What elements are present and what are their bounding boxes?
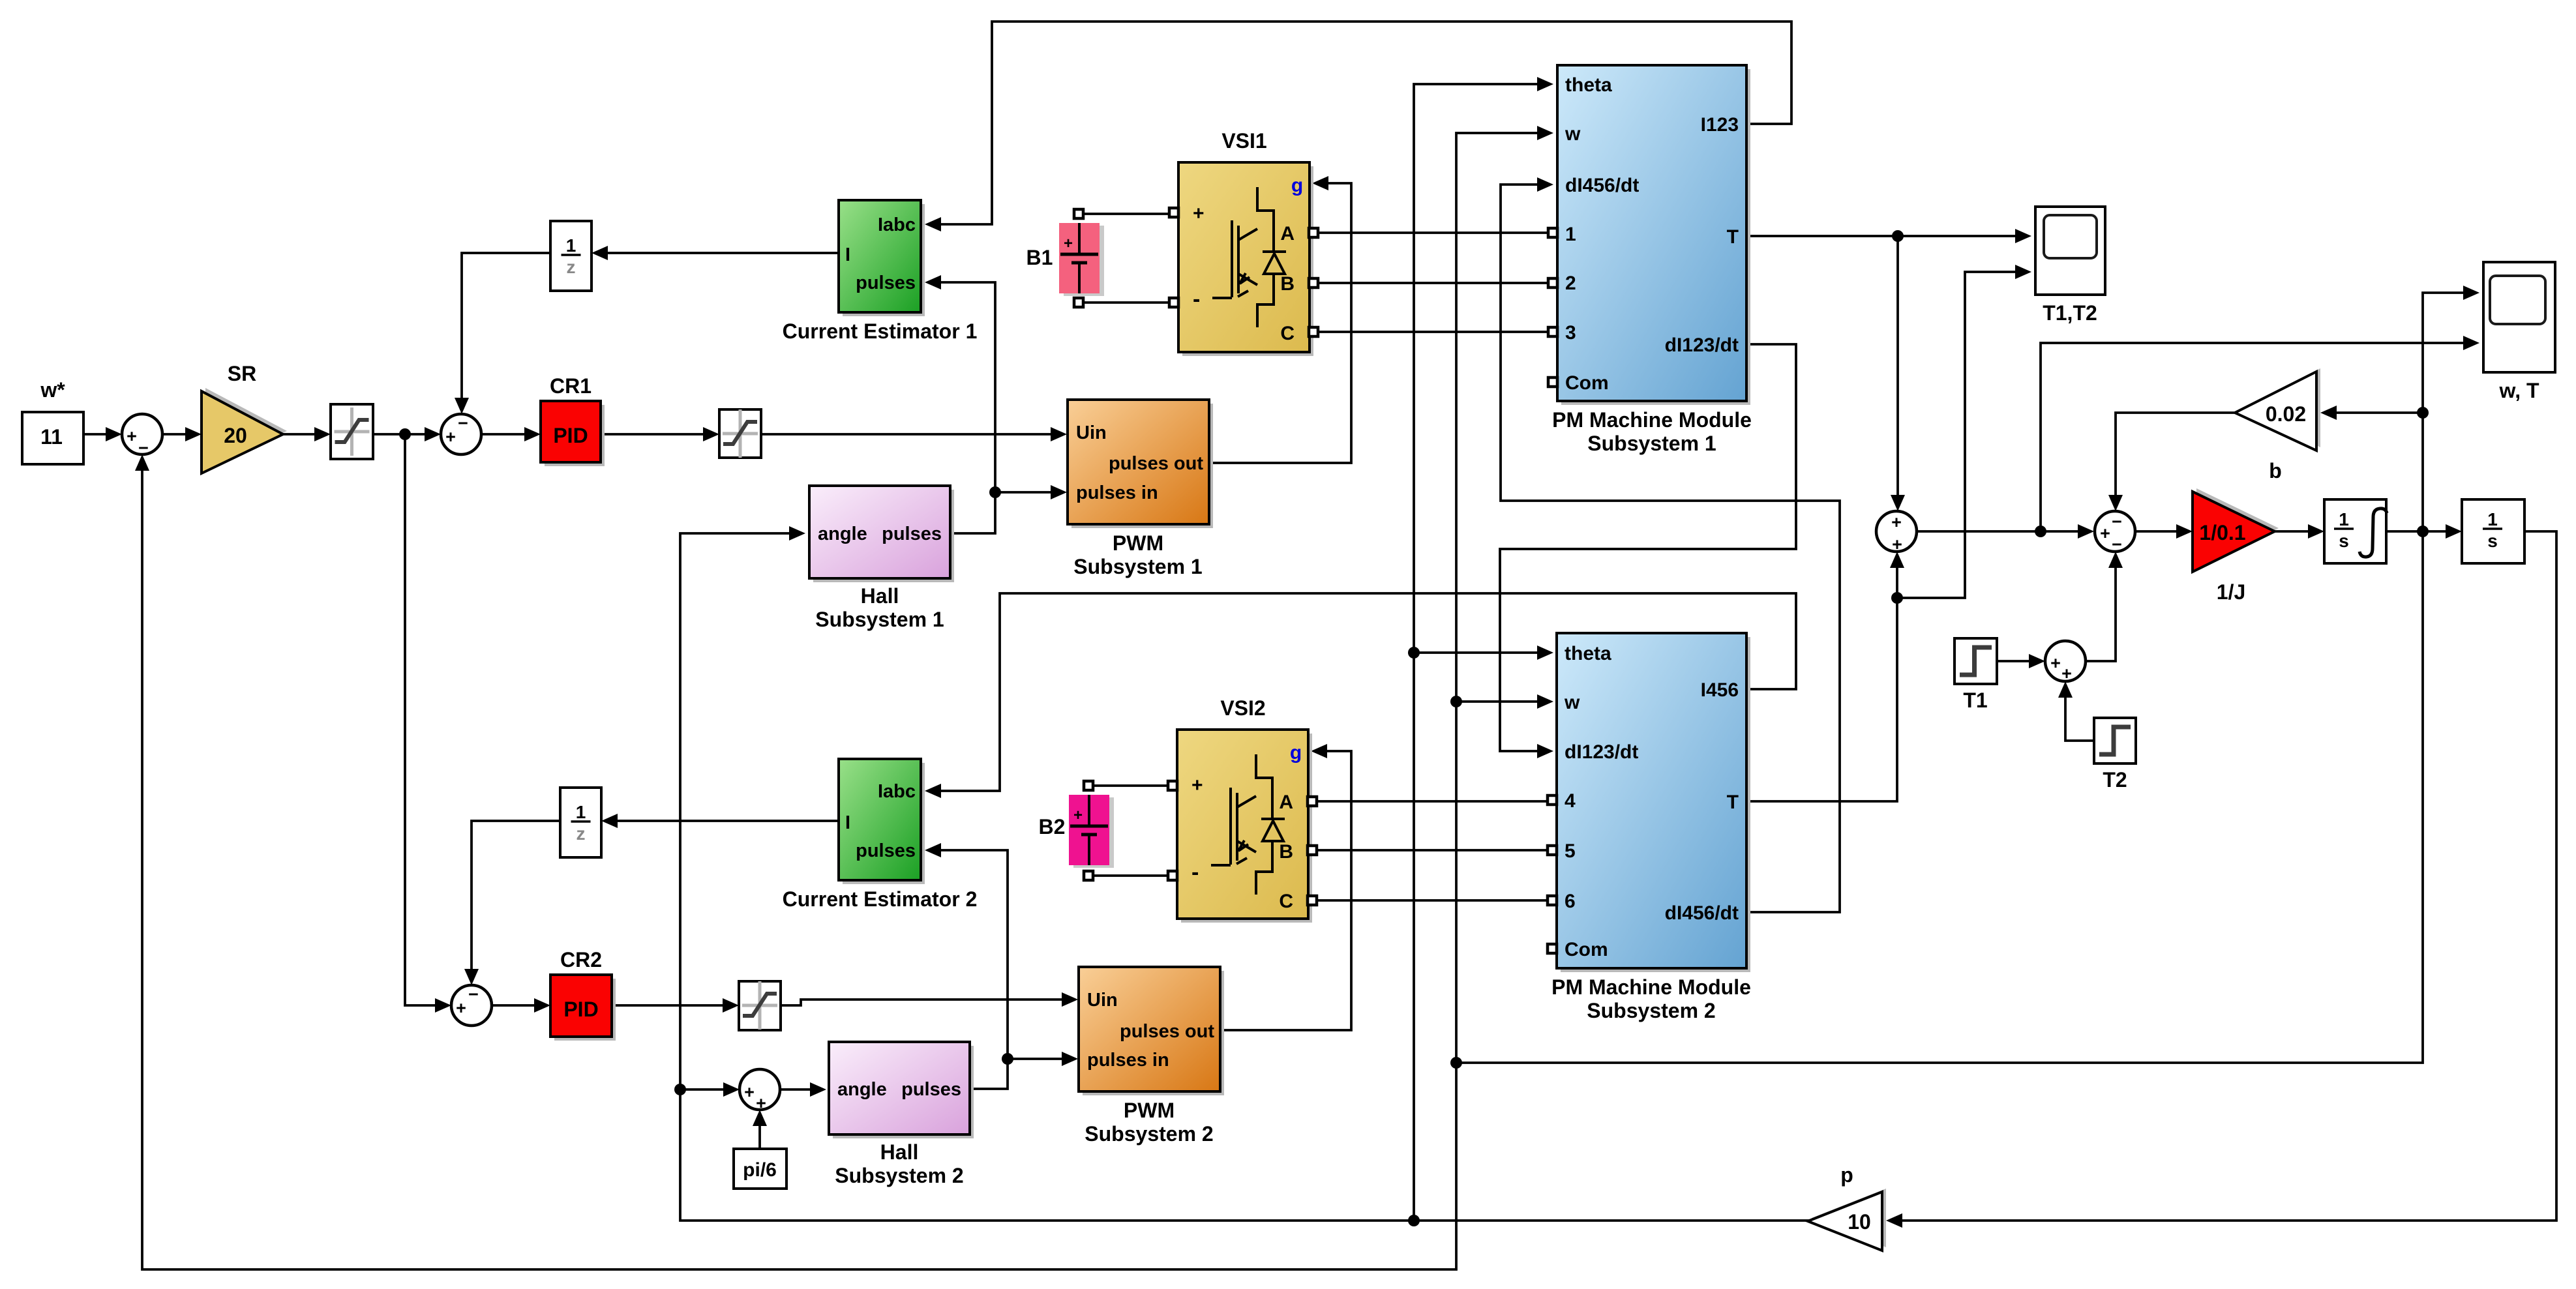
wire w branch to PM2 w input [1456, 700, 1538, 703]
svg-text:pulses in: pulses in [1087, 1050, 1169, 1071]
svg-text:+: + [744, 1082, 755, 1102]
svg-text:PWM: PWM [1113, 531, 1163, 555]
svg-text:theta: theta [1565, 643, 1611, 664]
wire saturation2 to PWM1 Uin [761, 433, 1052, 436]
Hall Subsystem 1 block [813, 490, 954, 582]
constant pi/6 [734, 1149, 786, 1189]
wire B1 plus terminal to VSI1 plus [1079, 213, 1171, 215]
scope T1,T2 [2035, 207, 2105, 295]
CR1 PID controller [545, 405, 605, 466]
svg-text:−: − [458, 413, 468, 433]
battery B1 [1064, 226, 1104, 296]
wire PWM2 pulses-out to VSI2 gate g [1220, 751, 1351, 1030]
svg-text:B: B [1280, 273, 1295, 295]
saturation3 block [739, 981, 781, 1030]
svg-text:Current Estimator 2: Current Estimator 2 [783, 887, 978, 911]
wire Hall1 pulses to PWM1 pulses-in and Current Estimator 1 pulses [950, 492, 1052, 533]
svg-text:w: w [1564, 692, 1580, 713]
svg-text:Hall: Hall [880, 1140, 919, 1164]
wire sum3 to gain 1/J [2135, 530, 2178, 533]
wire PWM1 pulses-out to VSI1 gate g [1209, 183, 1351, 463]
svg-text:dI456/dt: dI456/dt [1665, 902, 1739, 924]
junction dot w feedback at x2233 [1450, 1057, 1462, 1069]
junction dot on T1 torque line [1892, 230, 1904, 242]
wire theta to Hall2 angle sum [680, 1088, 725, 1091]
wire w feedback up to PM1 w input [1456, 133, 1538, 1063]
svg-text:dI123/dt: dI123/dt [1665, 334, 1739, 356]
unit delay 1/z block machine 2 [560, 788, 601, 857]
wire B2 plus terminal to VSI2 plus [1088, 784, 1169, 787]
svg-text:−: − [138, 438, 149, 458]
svg-text:T2: T2 [2103, 768, 2127, 792]
wire CR1 to saturation2 [601, 433, 704, 436]
svg-text:CR2: CR2 [560, 948, 602, 971]
svg-text:+: + [1193, 203, 1205, 224]
svg-text:A: A [1279, 792, 1293, 813]
saturation1 block [331, 404, 373, 459]
Current Estimator 1 subsystem block [843, 204, 925, 316]
sum3 acceleration summing junction [2095, 511, 2135, 552]
svg-text:1/0.1: 1/0.1 [2199, 521, 2245, 544]
svg-text:I: I [845, 812, 850, 833]
svg-text:0.02: 0.02 [2266, 402, 2306, 426]
battery B2 [1073, 797, 1114, 868]
wire VSI1 C to PM1 port 3 [1319, 331, 1548, 333]
svg-text:pulses: pulses [856, 840, 916, 861]
svg-text:b: b [2269, 459, 2282, 482]
wire Hall2 pulses to PWM2 pulses-in and Current Estimator 2 pulses [970, 1059, 1063, 1089]
wire I456 output of PM2 to Current Estimator 2 Iabc [940, 593, 1796, 791]
wire sum CR2 output to CR2 PID [492, 1004, 535, 1007]
wire theta branch to PM2 theta input [1414, 651, 1538, 654]
svg-text:−: − [2112, 512, 2122, 531]
wire saturation1 to sum2 with branch node A [373, 433, 426, 436]
svg-text:pulses: pulses [856, 273, 916, 293]
wire w up to scope w,T input 1 [2423, 293, 2464, 531]
svg-text:11: 11 [40, 425, 63, 449]
junction dot on pulses1 net [989, 486, 1001, 498]
svg-text:+: + [445, 427, 456, 447]
svg-text:+: + [456, 998, 466, 1018]
wire gain 1/J to limited integrator 1/s [2275, 530, 2309, 533]
svg-text:-: - [1191, 860, 1199, 885]
svg-text:T1,T2: T1,T2 [2043, 301, 2097, 325]
wire w feedback down-left to machines and speed sum [1456, 531, 2423, 1063]
svg-text:Subsystem 1: Subsystem 1 [1587, 432, 1716, 455]
sum Hall2 angle offset junction [740, 1069, 780, 1110]
svg-text:1: 1 [2339, 509, 2349, 529]
svg-text:+: + [1891, 512, 1902, 532]
wire PM2 T output up to torque sum bottom and scope T1,T2 input 2 [1749, 567, 1897, 801]
svg-text:PID: PID [563, 998, 598, 1021]
svg-text:A: A [1280, 223, 1295, 244]
svg-text:4: 4 [1565, 790, 1576, 812]
svg-text:PWM: PWM [1124, 1099, 1175, 1122]
svg-text:w*: w* [40, 378, 65, 402]
wire VSI1 A to PM1 port 1 [1319, 231, 1548, 234]
step source T1 [1954, 638, 1997, 684]
junction dot w tap to gain b [2417, 407, 2429, 419]
wire node A down to sum CR2 input [405, 434, 436, 1005]
svg-text:−: − [2112, 535, 2122, 554]
wire w* to sum1 [83, 433, 107, 436]
svg-text:g: g [1290, 742, 1302, 763]
svg-text:angle: angle [818, 524, 867, 544]
svg-text:B1: B1 [1026, 246, 1053, 269]
svg-text:Com: Com [1565, 939, 1608, 960]
VSI2 inverter block [1181, 733, 1312, 923]
wire sum2 to CR1 PID [481, 433, 526, 436]
svg-text:6: 6 [1565, 891, 1576, 912]
wire PM1 T output to scope T1,T2 input 1 [1749, 235, 2016, 237]
svg-text:Subsystem 2: Subsystem 2 [1085, 1122, 1213, 1146]
gain p value 10 pole pairs [1812, 1189, 1886, 1247]
saturation2 block [719, 409, 761, 458]
svg-text:B2: B2 [1039, 815, 1066, 838]
wire VSI2 C to PM2 port 6 [1317, 899, 1548, 902]
svg-text:z: z [577, 823, 586, 844]
PWM Subsystem 2 block [1083, 971, 1224, 1095]
svg-text:I: I [845, 244, 850, 265]
svg-text:VSI2: VSI2 [1220, 696, 1265, 720]
wire Hall2 angle sum to Hall2 angle input [780, 1088, 811, 1091]
svg-text:CR1: CR1 [550, 374, 592, 398]
wire VSI1 B to PM1 port 2 [1319, 282, 1548, 284]
wire integrator 1/s output right-down to gain p input [1901, 531, 2556, 1221]
svg-text:1: 1 [576, 802, 586, 822]
svg-text:Iabc: Iabc [878, 781, 916, 802]
svg-text:dI123/dt: dI123/dt [1565, 741, 1638, 763]
svg-text:s: s [2487, 531, 2498, 551]
svg-text:w, T: w, T [2498, 379, 2539, 402]
svg-text:1/J: 1/J [2217, 580, 2245, 604]
svg-text:+: + [2061, 664, 2072, 683]
svg-text:3: 3 [1565, 322, 1576, 344]
svg-text:1: 1 [566, 235, 577, 256]
svg-text:Subsystem 2: Subsystem 2 [1587, 999, 1715, 1022]
PWM Subsystem 1 block [1071, 404, 1213, 528]
wire saturation3 to PWM2 Uin [781, 1000, 1063, 1005]
svg-text:pulses out: pulses out [1120, 1021, 1214, 1042]
svg-text:+: + [127, 426, 137, 446]
svg-text:T1: T1 [1963, 689, 1987, 712]
junction dot theta to PM2 [1408, 647, 1420, 659]
gain 1/J value 1/0.1 [2196, 488, 2279, 569]
wire PM2 dI456/dt output routed to PM1 dI456/dt input [1501, 185, 1840, 912]
svg-text:PM Machine Module: PM Machine Module [1552, 408, 1752, 432]
svg-text:dI456/dt: dI456/dt [1565, 175, 1639, 196]
wire load sum to sum3 bottom input [2086, 567, 2116, 661]
wire unit delay 1/z1 from Current Estimator 1 output I [607, 252, 839, 254]
svg-text:Subsystem 1: Subsystem 1 [815, 608, 944, 631]
svg-text:Subsystem 2: Subsystem 2 [835, 1164, 963, 1187]
junction dot on total torque line [2035, 526, 2046, 537]
Hall Subsystem 2 block [833, 1046, 974, 1138]
wire torque sum to sum3 with tap to scope w,T input 2 [1917, 530, 2079, 533]
svg-text:Com: Com [1565, 372, 1609, 394]
svg-text:C: C [1280, 323, 1295, 344]
svg-text:2: 2 [1565, 273, 1576, 294]
svg-text:Uin: Uin [1087, 990, 1118, 1011]
svg-text:C: C [1279, 891, 1293, 912]
step source T2 [2094, 718, 2136, 763]
wire 0.02 gain b output down to sum3 top input [2116, 413, 2235, 496]
limited integrator 1/s block [2324, 499, 2386, 563]
svg-text:angle: angle [837, 1079, 887, 1100]
svg-text:s: s [2339, 531, 2349, 551]
svg-text:10: 10 [1848, 1210, 1871, 1234]
integrator 1/s block [2462, 499, 2524, 563]
svg-text:+: + [756, 1093, 766, 1113]
svg-text:VSI1: VSI1 [1221, 129, 1266, 153]
svg-text:+: + [2100, 524, 2110, 543]
gain b value 0.02 [2239, 368, 2320, 447]
svg-text:w: w [1565, 123, 1581, 145]
wire unit delay 1/z1 to sum2 top input [462, 253, 550, 399]
CR2 PID controller [554, 979, 616, 1041]
svg-text:pulses in: pulses in [1076, 482, 1158, 503]
sum CR2 speed-current summing junction machine 2 [451, 985, 492, 1026]
svg-text:T: T [1727, 792, 1739, 813]
svg-text:pulses: pulses [901, 1079, 961, 1100]
svg-text:theta: theta [1565, 74, 1612, 96]
svg-text:SR: SR [228, 362, 256, 385]
svg-text:+: + [1073, 807, 1083, 824]
svg-text:Uin: Uin [1076, 422, 1107, 443]
wire w to gain b 0.02 input [2335, 411, 2423, 414]
wire limited integrator to integrator 1/s (w line) [2386, 530, 2447, 533]
wire B1 minus terminal to VSI1 minus [1079, 301, 1171, 304]
source block w* value 11 [22, 412, 83, 464]
junction dot pulses2 net [1002, 1053, 1013, 1065]
Current Estimator 2 subsystem block [843, 763, 925, 884]
wire I123 output of PM1 to Current Estimator 1 Iabc [940, 22, 1791, 224]
svg-text:B: B [1279, 841, 1293, 863]
wire PM1 dI123/dt output routed to PM2 dI123/dt input [1500, 344, 1796, 751]
svg-text:-: - [1193, 287, 1200, 312]
svg-text:g: g [1291, 175, 1303, 196]
sum1 speed error summing junction [122, 414, 162, 454]
svg-text:pi/6: pi/6 [743, 1159, 777, 1181]
PM Machine Module Subsystem 1 block [1561, 69, 1750, 405]
wire sum1 to gain SR [162, 433, 187, 436]
wire VSI2 B to PM2 port 5 [1317, 849, 1548, 852]
svg-text:Current Estimator 1: Current Estimator 1 [783, 319, 978, 343]
svg-text:1: 1 [1565, 224, 1576, 245]
svg-text:+: + [1064, 235, 1073, 252]
sum of load torques T1 plus T2 [2045, 641, 2086, 681]
wire unit delay 1/z2 to sum CR2 top input [472, 821, 560, 970]
svg-text:5: 5 [1565, 840, 1576, 862]
wire VSI2 A to PM2 port 4 [1317, 800, 1548, 803]
gain SR value 20 [205, 388, 287, 470]
wire T1 step to load sum [1997, 660, 2030, 662]
svg-text:T: T [1727, 226, 1739, 248]
svg-text:pulses out: pulses out [1109, 453, 1203, 474]
svg-text:Iabc: Iabc [878, 215, 916, 235]
wire T2 step to load sum bottom input [2065, 696, 2094, 741]
junction dot on T2 torque line [1891, 592, 1903, 604]
wire CR2 PID to saturation3 [612, 1004, 724, 1007]
svg-text:I123: I123 [1701, 114, 1739, 136]
wire pi/6 constant up to Hall2 angle sum [758, 1125, 761, 1149]
wire Current Estimator 2 output I to unit delay 1/z2 [616, 820, 839, 822]
junction dot w to PM2 [1450, 696, 1462, 707]
unit delay 1/z block machine 1 [550, 221, 592, 291]
wire w feedback bottom rail to sum1 minus input [142, 469, 1456, 1269]
sum2 current loop summing junction machine 1 [441, 414, 481, 454]
wire SR to saturation1 [283, 433, 316, 436]
wire B2 minus terminal to VSI2 minus [1088, 874, 1169, 877]
wire theta up to PM1 theta input [1414, 84, 1538, 1221]
svg-text:Subsystem 1: Subsystem 1 [1073, 555, 1202, 578]
svg-text:−: − [468, 985, 479, 1004]
svg-text:PID: PID [553, 424, 588, 447]
junction dot theta to Hall2 sum [674, 1084, 686, 1095]
PM Machine Module Subsystem 2 block [1561, 637, 1750, 972]
svg-text:+: + [2050, 653, 2061, 673]
svg-text:z: z [567, 257, 576, 277]
VSI1 inverter block [1182, 166, 1313, 356]
junction dot w line [2417, 526, 2429, 537]
svg-text:+: + [1191, 775, 1203, 796]
svg-text:20: 20 [224, 424, 247, 447]
svg-text:p: p [1840, 1163, 1853, 1187]
node A junction dot [399, 428, 411, 440]
svg-text:PM Machine Module: PM Machine Module [1551, 975, 1751, 999]
wire T1 torque down to sum of torques top input [1896, 236, 1899, 496]
svg-text:pulses: pulses [882, 524, 942, 544]
scope w,T [2483, 262, 2555, 372]
svg-text:Hall: Hall [861, 584, 899, 608]
wire gain p output theta feedback line to Hall subsystems [680, 533, 1810, 1221]
junction dot theta line at x2168 [1408, 1215, 1420, 1226]
svg-text:I456: I456 [1701, 679, 1739, 701]
svg-text:+: + [1892, 535, 1902, 554]
svg-text:1: 1 [2487, 509, 2498, 529]
sum of machine torques junction [1876, 511, 1917, 552]
